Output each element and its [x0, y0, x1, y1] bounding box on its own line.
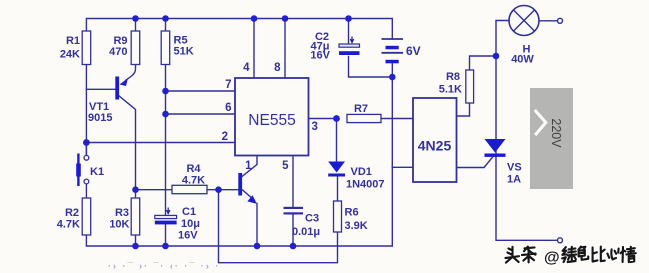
wire pin 7 — [166, 90, 236, 92]
svg-text:R8: R8 — [446, 71, 460, 83]
svg-text:5.1K: 5.1K — [439, 84, 462, 96]
node pin3 / R7 / VD1 — [333, 115, 340, 122]
node battery negative — [389, 74, 396, 81]
wire R2 bottom + ground rail — [86, 77, 392, 246]
node rail VT2 emitter — [254, 243, 261, 250]
wire VT1 base — [86, 88, 115, 90]
svg-text:9015: 9015 — [88, 112, 112, 124]
diode VD1 — [328, 162, 384, 191]
wire R3 top lead — [135, 190, 137, 198]
svg-text:470: 470 — [109, 46, 127, 58]
resistor R7 — [347, 103, 381, 123]
svg-text:51K: 51K — [174, 46, 194, 58]
node top C2 — [345, 15, 352, 22]
wire pin 5 / C3 top — [292, 156, 294, 208]
wire K1 lower lead to R2 — [85, 184, 87, 198]
resistor R9 — [109, 31, 140, 65]
wire pin 3 — [309, 118, 337, 120]
wire pin 1 lead — [242, 156, 257, 177]
IC NE555 U1 — [222, 62, 318, 172]
svg-text:5: 5 — [282, 160, 289, 172]
svg-text:NE555: NE555 — [248, 112, 295, 129]
transistor VT2 — [238, 173, 256, 204]
svg-text:4N25: 4N25 — [418, 138, 452, 154]
svg-text:10μ: 10μ — [181, 218, 200, 230]
node rail C1 — [162, 243, 169, 250]
svg-text:4.7K: 4.7K — [57, 219, 80, 231]
resistor R8 — [439, 70, 474, 103]
wire R9 top lead — [135, 19, 137, 32]
svg-text:·› ·¯ ›· ¯· ‹· ·¯ ·› ·: ·› ·¯ ›· ¯· ‹· ·¯ ·› · — [108, 261, 220, 271]
wire R8 bottom to opto pin5 — [457, 103, 470, 116]
svg-text:R2: R2 — [65, 207, 79, 219]
node pin6 — [162, 111, 169, 118]
wire pin 4 lead — [253, 19, 255, 79]
node pin7 — [162, 88, 169, 95]
svg-text:40W: 40W — [511, 54, 534, 66]
svg-text:4.7K: 4.7K — [182, 175, 205, 187]
capacitor C1 — [155, 206, 200, 242]
capacitor C2 — [310, 31, 359, 62]
wire R8 top branch — [470, 56, 497, 70]
wire VD1 to R6 — [337, 177, 339, 202]
resistor R1 — [60, 31, 91, 65]
resistor R2 — [57, 198, 91, 235]
wire VD1 anode lead — [336, 119, 338, 163]
capacitor C3 — [284, 207, 321, 238]
svg-text:4: 4 — [243, 62, 250, 74]
ghost artifacts bottom — [108, 261, 220, 271]
wire pin 8 lead — [284, 19, 286, 79]
wire VT2 emitter vertical — [256, 204, 258, 247]
lamp H — [509, 6, 539, 66]
svg-text:C3: C3 — [305, 213, 319, 225]
node R4 / VT2 base — [215, 186, 222, 193]
svg-text:1A: 1A — [507, 174, 521, 186]
svg-text:VD1: VD1 — [351, 166, 372, 178]
battery GB 6V — [382, 39, 421, 63]
wire lamp right to terminal — [539, 20, 557, 22]
wire C2 bottom lead — [349, 57, 393, 78]
svg-text:3.9K: 3.9K — [345, 220, 368, 232]
svg-text:R4: R4 — [186, 163, 201, 175]
svg-text:7: 7 — [225, 79, 231, 91]
terminal bottom — [558, 238, 563, 243]
wire R5 bottom vertical — [165, 65, 167, 216]
node top R9 — [132, 15, 139, 22]
wire R3 bottom lead — [135, 235, 137, 246]
wire battery bottom lead — [391, 64, 393, 78]
svg-text:1N4007: 1N4007 — [346, 179, 385, 191]
svg-text:R6: R6 — [345, 207, 359, 219]
wire opto pin4 to gate — [457, 156, 494, 168]
wire R5 top lead — [165, 19, 167, 32]
svg-text:K1: K1 — [90, 166, 104, 178]
node rail R3 — [132, 243, 139, 250]
svg-text:VS: VS — [507, 162, 522, 174]
wire base node down — [219, 190, 338, 263]
wire R7 to opto — [381, 118, 413, 120]
resistor R6 — [334, 201, 368, 232]
wire R4 left branch — [136, 189, 173, 191]
wire R1 bottom to node A — [85, 65, 87, 156]
resistor R3 — [109, 198, 139, 235]
svg-text:0.01μ: 0.01μ — [292, 226, 320, 238]
node A pin2/K1 — [83, 139, 90, 146]
wire K1 upper lead — [85, 143, 87, 156]
svg-text:C1: C1 — [182, 206, 196, 218]
node top R5 — [162, 15, 169, 22]
node rail C3 — [290, 243, 297, 250]
svg-text:6V: 6V — [406, 44, 421, 58]
terminal top — [558, 18, 563, 23]
svg-text:R1: R1 — [66, 35, 80, 47]
thyristor VS — [485, 139, 522, 186]
transistor VT1 — [88, 65, 136, 190]
svg-text:1: 1 — [245, 160, 252, 172]
wire pin 2 — [86, 142, 235, 144]
svg-text:3: 3 — [312, 121, 318, 133]
svg-text:10K: 10K — [109, 219, 129, 231]
resistor R4 — [172, 163, 207, 194]
svg-text:R7: R7 — [354, 103, 368, 115]
wire C2 top lead — [348, 19, 350, 45]
node VT1 collector / R3 — [132, 186, 139, 193]
svg-text:16V: 16V — [310, 50, 330, 62]
wire C3 bottom lead — [292, 215, 294, 247]
svg-text:24K: 24K — [60, 49, 80, 61]
node top pin8 — [282, 15, 289, 22]
svg-text:220V: 220V — [549, 118, 563, 148]
svg-text:8: 8 — [274, 62, 281, 74]
svg-text:2: 2 — [222, 131, 228, 143]
switch K1 — [76, 154, 104, 187]
220V watermark panel — [530, 88, 573, 189]
svg-text:6: 6 — [225, 102, 231, 114]
wire top supply rail — [86, 19, 392, 40]
wire lamp left + thyristor vertical — [496, 21, 557, 241]
wire C1 bottom lead — [165, 224, 167, 246]
wire pin 6 — [166, 113, 236, 115]
svg-text:16V: 16V — [178, 230, 198, 242]
node lamp / R8 — [493, 53, 500, 60]
svg-text:R3: R3 — [115, 207, 129, 219]
node top pin4 — [251, 15, 258, 22]
optocoupler U2 4N25 — [413, 98, 457, 182]
resistor R5 — [161, 31, 194, 65]
svg-text:@: @ — [544, 250, 560, 267]
wire R4 right to VT2 base — [207, 189, 238, 191]
wire 4N25 pin2 tee — [392, 166, 413, 168]
